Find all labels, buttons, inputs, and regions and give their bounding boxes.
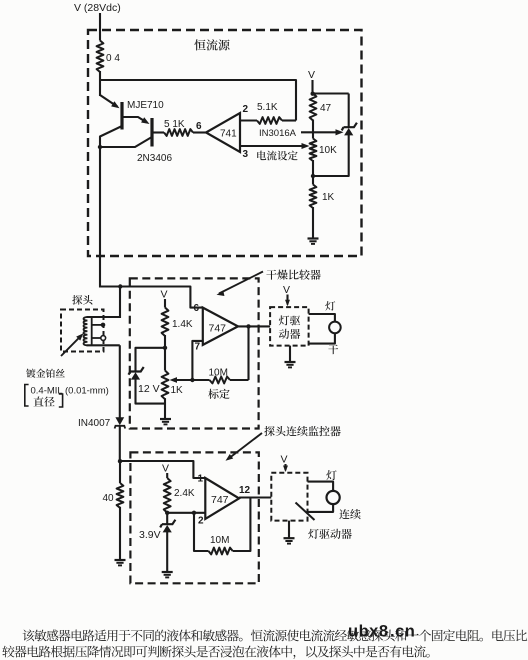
pointer stroke: lamp driver 2 [296, 503, 315, 521]
wire: pin7 lead [192, 341, 202, 380]
svg-text:3.9V: 3.9V [139, 529, 161, 541]
wiper wire: pin7 to 1K [172, 379, 192, 381]
wire: lamp2 loop bottom [308, 504, 334, 512]
junction: pin2/10M node [192, 511, 196, 515]
label 灯驱动器 (lamp driver 2) [308, 529, 351, 539]
resistor R 0.4 [97, 41, 104, 73]
svg-text:V (28Vdc): V (28Vdc) [74, 2, 121, 14]
wire: 2.4K node into zener [166, 513, 168, 525]
svg-text:V: V [161, 289, 168, 301]
wire: down to probe [119, 287, 121, 319]
svg-text:741: 741 [220, 129, 237, 140]
wire: U2 output [238, 325, 270, 327]
wire: 3.9V zener to ground [166, 532, 168, 572]
arrowhead: dry comparator pointer [216, 290, 225, 297]
svg-text:0.4-MIL (0.01-mm): 0.4-MIL (0.01-mm) [31, 386, 109, 397]
potentiometer R 1K (calibrate) [162, 371, 169, 400]
svg-text:12 V: 12 V [138, 383, 160, 395]
wire: 10K to junction [312, 160, 314, 177]
wire: pin3 current-set line [240, 145, 306, 147]
wire: 1.4K to 1K pot [164, 335, 166, 371]
wire: IN4007 to junction [119, 426, 121, 462]
arrowhead: 1K wiper [170, 377, 178, 383]
junction: probe tap [118, 284, 122, 288]
dashed box: dry comparator [130, 278, 259, 428]
arrowhead: V into lamp driver 1 [285, 300, 290, 307]
dashed box: probe [61, 310, 104, 352]
svg-text:2N3406: 2N3406 [137, 153, 172, 164]
svg-text:747: 747 [209, 323, 227, 335]
arrowhead: probe pointer [76, 331, 85, 340]
wire: junction to 1K [312, 176, 314, 185]
wire: main drop to comparator stage [99, 147, 101, 288]
svg-text:1K: 1K [322, 192, 335, 203]
label 动器 (lamp driver line2) [279, 329, 300, 339]
svg-text:10M: 10M [210, 535, 229, 546]
ground (below 40) [115, 559, 126, 561]
probe open contact circle [101, 336, 106, 341]
caption line 2 [2, 646, 429, 659]
label 探头连续监控器 (probe continuity monitor) [264, 426, 340, 436]
resistor R 5.1K (feedback) [257, 117, 282, 124]
wire: lamp2 loop top [308, 482, 334, 491]
label 直径 (diameter) [33, 396, 54, 406]
ground (lamp driver 1) [285, 361, 296, 363]
wire: feedback riser [247, 326, 249, 380]
label 灯驱 (lamp driver line1) [279, 315, 300, 325]
wire: 5.1K fb to rail [282, 119, 296, 121]
probe lead contact (dot) [92, 324, 102, 326]
label 干 (dry) [328, 345, 338, 355]
label 恒流源 (constant current source) [194, 39, 229, 50]
wire: probe to IN4007 [119, 345, 121, 418]
svg-text:10M: 10M [209, 368, 228, 379]
wire: 1K bottom to ground [164, 398, 166, 419]
lamp LP1 (dry) [329, 322, 341, 334]
svg-text:10K: 10K [319, 145, 337, 156]
transistor Q1 MJE710 emitter wire [100, 95, 118, 107]
wire: 40 to ground [119, 507, 121, 560]
svg-text:V: V [281, 454, 288, 466]
wire: feedback drop (U3) [194, 513, 209, 551]
svg-text:5 1K: 5 1K [164, 119, 185, 130]
resistor R 1K (top box) [310, 185, 317, 209]
wire: V to 1.4K [164, 299, 166, 308]
arrowhead: V into lamp driver 2 [283, 466, 288, 473]
potentiometer R 10K [310, 139, 317, 162]
wire: V to divider node [311, 80, 313, 94]
svg-text:6: 6 [196, 121, 202, 132]
wire: zener to return [313, 135, 349, 176]
svg-text:.cn: .cn [390, 623, 415, 641]
arrowhead Q2 emitter (PNP) [141, 117, 151, 126]
wire: entry to dry comparator pin6 [100, 287, 203, 308]
svg-text:5.1K: 5.1K [257, 102, 278, 113]
wire: 741 output to 5.1K [193, 131, 206, 133]
transistor Q1 MJE710 base bar [120, 102, 123, 130]
wire: to 10M [192, 379, 209, 381]
wire: IN3016A pointer [301, 131, 341, 133]
label 灯 (lamp1) [325, 301, 335, 311]
diode D IN4007 [115, 417, 124, 425]
svg-text:12: 12 [239, 485, 251, 496]
junction: collectors join [98, 145, 102, 149]
wire: 47 to 10K [312, 120, 314, 139]
label 电流设定 (current setting) [257, 151, 297, 161]
resistor R 5.1K (base) [164, 129, 193, 136]
resistor R 2.4K [164, 478, 171, 513]
svg-text:V: V [283, 284, 290, 296]
wire: lamp driver 2 ground [288, 521, 290, 539]
resistor R 1.4K [162, 308, 169, 337]
zener diode D 3.9V [162, 520, 175, 525]
wire: node to pin1 [120, 461, 205, 478]
ground (lamp driver 2) [284, 537, 295, 539]
svg-text:V: V [308, 69, 315, 81]
wire: lamp1 loop bottom [309, 333, 335, 344]
ground (below 1K) [308, 237, 319, 239]
wire: below R0.4 [99, 71, 101, 96]
dashed box: probe continuity monitor [130, 452, 258, 583]
transistor Q2 2N3406 base bar [150, 118, 153, 147]
wire: Q1 base to Q2 emitter [123, 117, 147, 122]
wire: tap to 12V zener [136, 348, 166, 372]
wire: Q1 collector [100, 126, 122, 147]
svg-text:7: 7 [195, 342, 201, 353]
svg-text:747: 747 [211, 494, 229, 506]
pointer line to continuity monitor [228, 433, 262, 459]
resistor R 10M (dry) [210, 377, 231, 384]
op-amp U3 747 [205, 478, 239, 519]
wire: U3 output [239, 496, 271, 498]
wire: top rail to 5.1K feedback [100, 80, 296, 121]
probe lead top [87, 316, 120, 318]
pointer line to dry comparator [219, 272, 263, 294]
label bracket ] [59, 394, 63, 407]
svg-text:40: 40 [103, 493, 115, 504]
junction: probe return node [118, 459, 122, 463]
svg-text:2: 2 [243, 104, 249, 115]
probe coil (platinum wire) [84, 317, 88, 345]
dashed box: lamp driver 1 灯驱动器 [270, 307, 309, 346]
label 镀金铂丝 (gold-plated platinum wire) [26, 369, 65, 378]
label 标定 (calibrate) [208, 389, 229, 399]
resistor R 40 [117, 483, 124, 508]
wire: lamp driver 1 ground [289, 346, 291, 362]
svg-text:1: 1 [198, 474, 204, 485]
wire: 1K to ground [312, 207, 314, 239]
label 干燥比较器 (dry comparator) [266, 269, 320, 279]
arrowhead: continuity monitor pointer [224, 454, 233, 463]
arrowhead Q1 emitter (PNP) [111, 101, 121, 110]
svg-text:6: 6 [194, 303, 200, 314]
junction: ref divider tap [163, 346, 167, 350]
arrowhead: pin3 to 10K wiper [302, 143, 310, 149]
svg-text:2: 2 [198, 516, 204, 527]
junction: feedback tap [246, 324, 250, 328]
wire: supply drop [99, 13, 101, 41]
lamp LP2 (continuity) [327, 491, 340, 504]
label 连续 (continuous) [339, 509, 360, 519]
zener diode D IN3016A [344, 123, 357, 128]
ground (dry comparator) [160, 418, 171, 420]
wire: Q2 base lead [152, 131, 164, 133]
wire: V into lamp driver 1 [286, 295, 288, 305]
op-amp U2 747 [203, 308, 238, 345]
op-amp U1 741 [206, 113, 240, 152]
junction: node at 47 top [311, 92, 315, 96]
probe pointer arrow [61, 336, 81, 356]
arrowhead: IN3016A pointer [336, 129, 344, 135]
wire: pin2 lead [167, 512, 205, 514]
probe lead contact (open) [92, 337, 101, 339]
svg-text:47: 47 [320, 103, 332, 114]
ground (3.9V zener) [162, 571, 173, 573]
resistor R 10M (continuity) [209, 548, 233, 555]
label bracket [ [25, 385, 29, 407]
wire: lamp1 loop top [309, 314, 335, 322]
junction: 2.4K / pin2 node [165, 511, 169, 515]
svg-text:IN3016A: IN3016A [259, 128, 297, 139]
dashed box: lamp driver 2 [271, 473, 307, 521]
resistor R 47 [310, 94, 317, 121]
svg-text:IN4007: IN4007 [78, 418, 111, 429]
svg-text:MJE710: MJE710 [127, 100, 164, 111]
svg-text:1K: 1K [171, 385, 184, 396]
wire: V into lamp driver 2 [284, 464, 286, 470]
svg-text:1.4K: 1.4K [172, 319, 193, 330]
zener diode D 12V [130, 367, 143, 372]
wire: V to 2.4K [166, 473, 168, 478]
wire: Q2 collector [100, 138, 151, 148]
caption line 1 [23, 629, 528, 641]
wire: 10M to output riser [233, 498, 251, 552]
dashed box: constant current source 恒流源 [88, 30, 362, 256]
wire: divider node rail [313, 92, 349, 94]
svg-text:3: 3 [243, 149, 249, 160]
wire: 10M to feedback riser [230, 379, 249, 381]
probe lead bottom [87, 344, 120, 346]
wire: 12V zener to return [136, 379, 166, 404]
svg-text:V: V [162, 463, 169, 475]
svg-text:0 4: 0 4 [106, 53, 120, 64]
probe return electrode [91, 317, 93, 345]
junction: 10K bottom / zener return [311, 174, 315, 178]
svg-text:ubx8: ubx8 [348, 623, 389, 641]
wire: 40 resistor drop [119, 461, 121, 483]
label 探头 (probe) [72, 295, 92, 305]
wire: pin2 to 5.1K fb [240, 119, 257, 121]
junction: probe contact dot [101, 323, 106, 328]
wire: zener branch down [348, 94, 350, 129]
svg-text:2.4K: 2.4K [174, 488, 195, 499]
label 灯 (lamp2) [326, 470, 336, 480]
junction: pin7/10M node [190, 378, 194, 382]
